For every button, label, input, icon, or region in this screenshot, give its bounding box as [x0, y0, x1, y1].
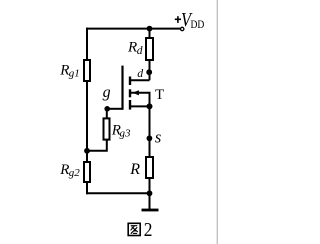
svg-text:T: T	[155, 87, 164, 103]
svg-text:g2: g2	[69, 167, 81, 179]
svg-text:g3: g3	[120, 127, 132, 139]
svg-text:2: 2	[144, 219, 153, 241]
svg-text:d: d	[137, 45, 143, 57]
svg-text:g: g	[103, 84, 111, 101]
svg-text:DD: DD	[191, 18, 205, 31]
svg-text:g1: g1	[69, 67, 80, 79]
svg-text:d: d	[137, 66, 143, 80]
svg-text:s: s	[155, 128, 161, 147]
svg-text:R: R	[129, 161, 140, 178]
svg-text:R: R	[127, 40, 137, 56]
